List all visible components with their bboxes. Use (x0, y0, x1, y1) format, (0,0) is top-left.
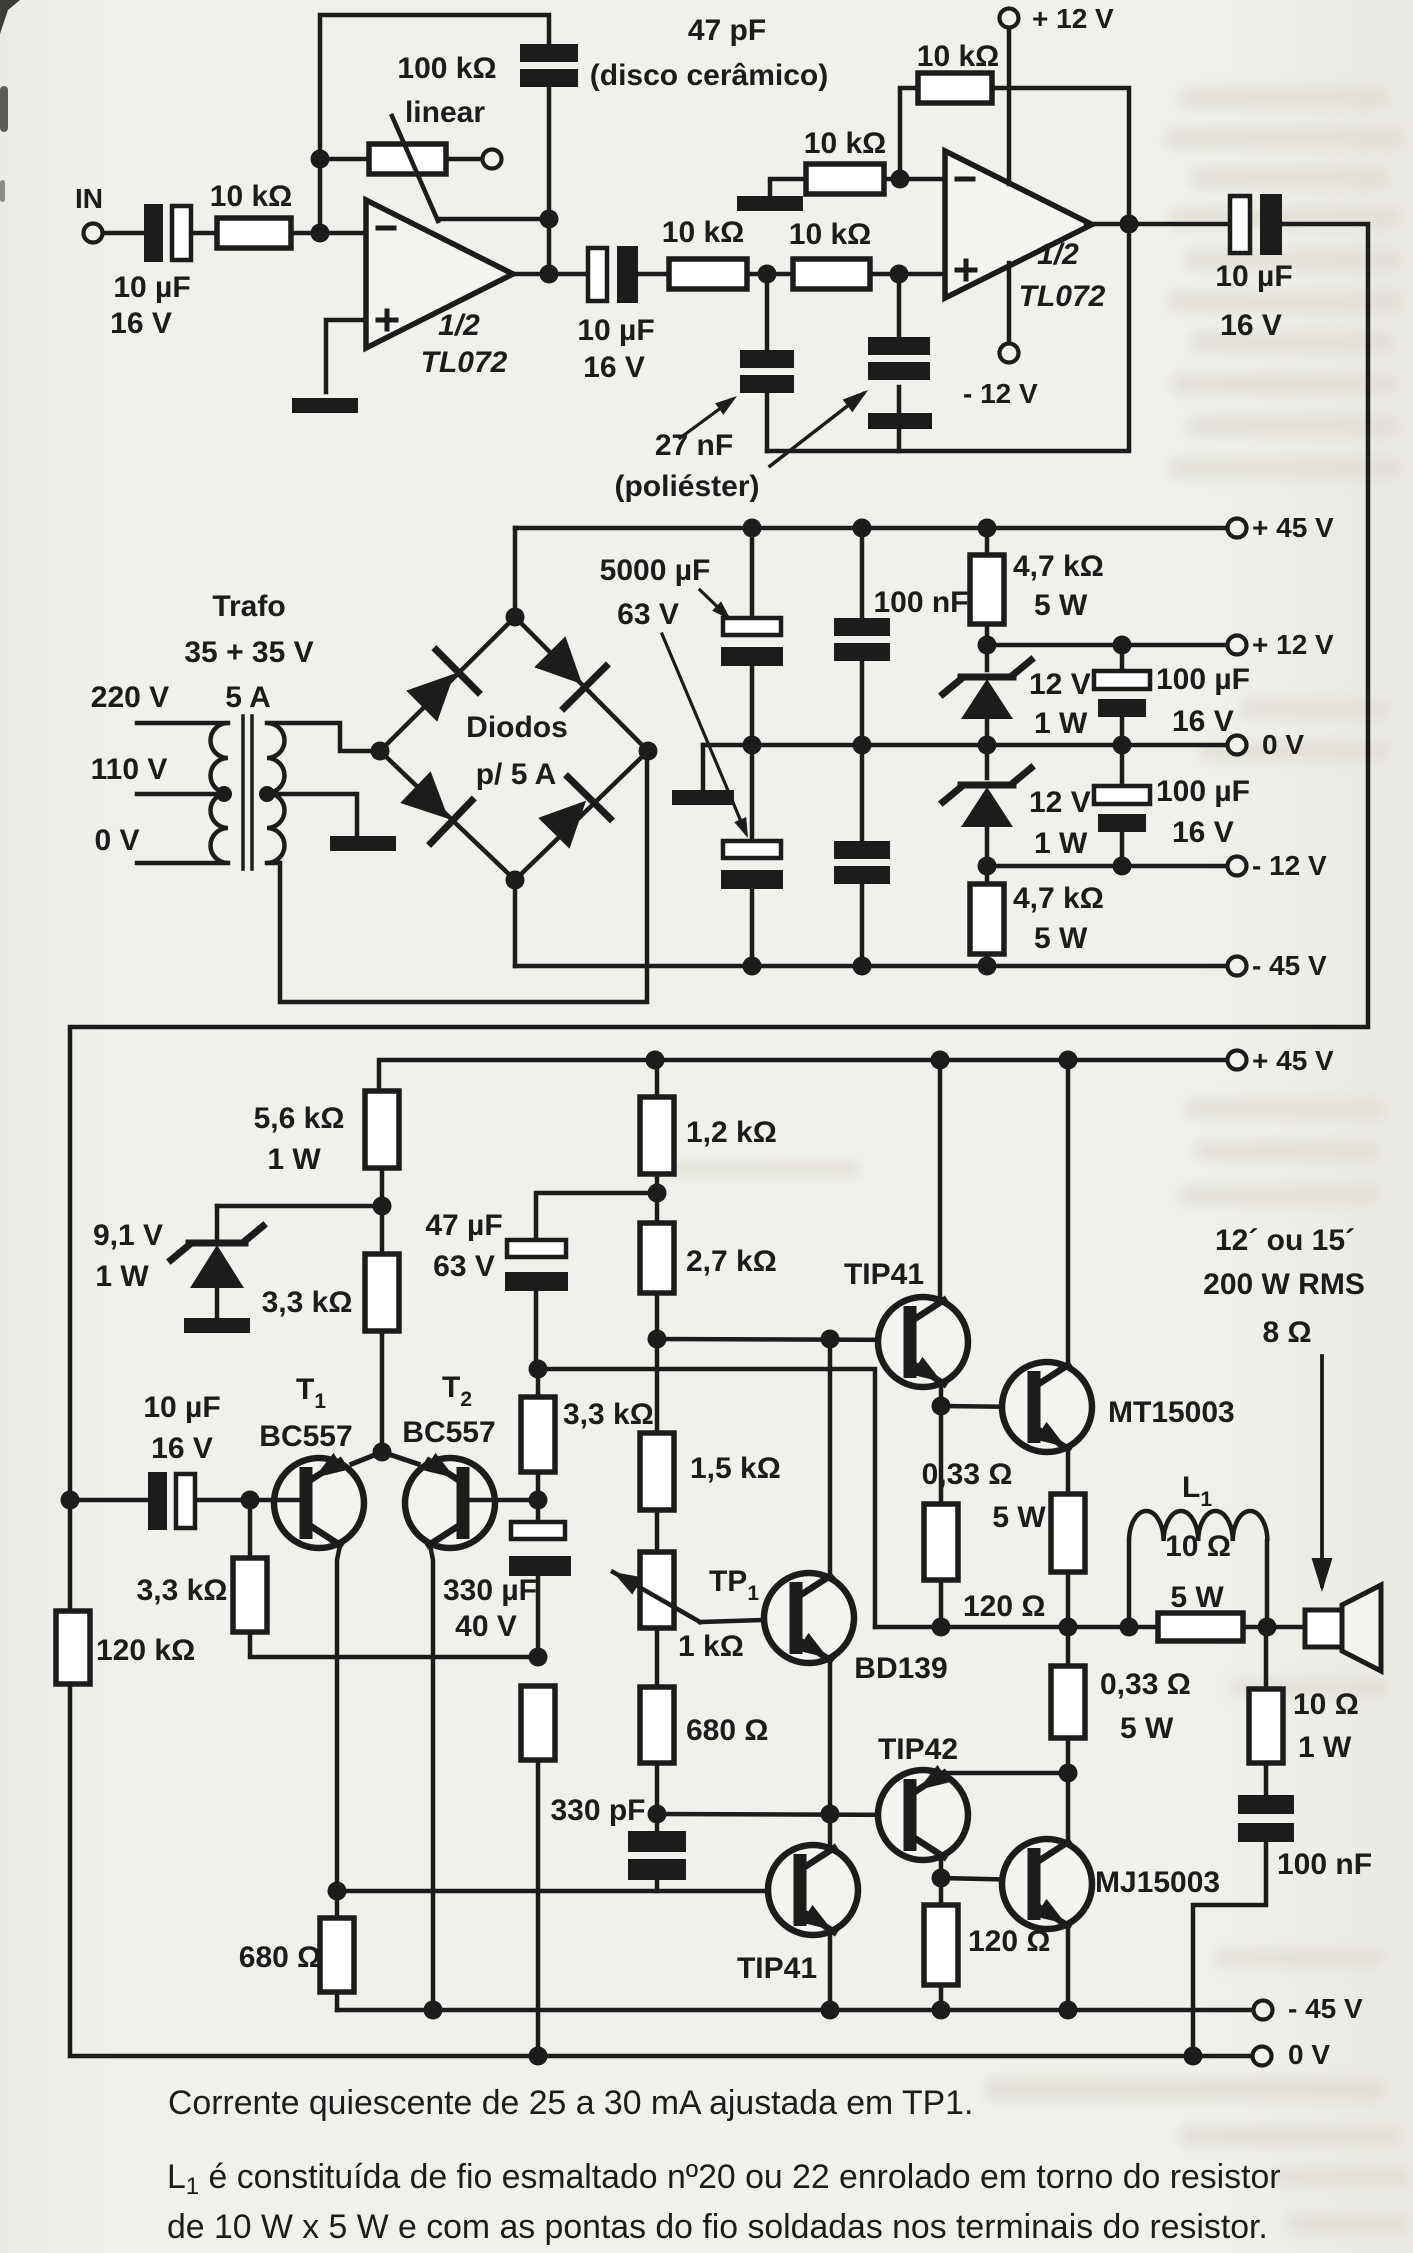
input coupling capacitor C13 10uF 16V (61, 1491, 80, 1510)
wire node A up to feedback top (320, 15, 549, 233)
wire TP1 to R17 (655, 1628, 660, 1687)
capacitor C16 330 pF (655, 1814, 660, 1831)
node output U1a junction (540, 265, 559, 284)
svg-text:16 V: 16 V (583, 351, 645, 384)
bridge rectifier B1 diamond (380, 617, 648, 880)
wire lower bias to TIP41 b2 base (337, 1889, 796, 1894)
resistor R9 3.3 kOhm (365, 1254, 399, 1331)
ground symbol at Z3 (184, 1318, 250, 1333)
node M bias chain junction (648, 1184, 667, 1203)
wire R11 down to 0V rail (70, 1684, 1253, 2056)
svg-text:680 Ω: 680 Ω (686, 1714, 768, 1747)
svg-text:1/2: 1/2 (438, 309, 480, 342)
+12V supply terminal U1b (1000, 9, 1019, 28)
svg-text:1 W: 1 W (1034, 827, 1088, 860)
T2 emitter wire to node H (382, 1452, 418, 1464)
svg-text:16 V: 16 V (1220, 309, 1282, 342)
zobel capacitor C17 100nF (1264, 1763, 1269, 1795)
svg-text:47 µF: 47 µF (425, 1209, 502, 1242)
svg-text:BC557: BC557 (259, 1420, 352, 1453)
svg-text:16 V: 16 V (1172, 705, 1234, 738)
svg-text:100 nF: 100 nF (873, 586, 968, 619)
terminal 0V amp (1253, 2047, 1272, 2066)
resistor R24 120 Ohm lower (939, 1878, 944, 1905)
MT15003 emitter wire (1060, 1445, 1068, 1494)
wire U1b output (1086, 222, 1230, 227)
svg-text:16 V: 16 V (110, 307, 172, 340)
capacitor C8 5000uF 63V lower (743, 736, 762, 755)
resistor R14 1.2 kOhm bias chain (646, 1051, 665, 1070)
node I amp input junction (241, 1491, 260, 1510)
wire filter bottom rail to output (767, 224, 1129, 451)
svg-text:1,5 kΩ: 1,5 kΩ (690, 1452, 781, 1485)
wire bridge top to +45 rail (513, 528, 518, 617)
svg-text:10 Ω: 10 Ω (1165, 1530, 1231, 1563)
svg-text:1 kΩ: 1 kΩ (678, 1630, 744, 1663)
transistor Q2 TIP41 upper driver (878, 1297, 968, 1387)
-12V supply terminal U1b (1007, 263, 1012, 344)
wire R5 left end to ground (770, 179, 806, 196)
wire R4 to output node (992, 88, 1129, 224)
svg-text:4,7 kΩ: 4,7 kΩ (1013, 882, 1104, 915)
svg-text:1 W: 1 W (267, 1143, 321, 1176)
wire secondary top to bridge left corner (267, 723, 380, 751)
svg-text:120 kΩ: 120 kΩ (96, 1634, 195, 1667)
bootstrap wire node L to output (538, 1369, 875, 1627)
resistor R15 2.7 kOhm bias chain (640, 1223, 674, 1293)
zobel resistor R22 10 Ohm 1W (1264, 1627, 1269, 1689)
-45V rail power supply (515, 964, 1227, 969)
svg-text:BC557: BC557 (402, 1416, 495, 1449)
trimpot TP1 1 kOhm (640, 1552, 674, 1628)
ground symbol on 0V rail (701, 745, 706, 790)
BD139 emitter wire down to node Q (830, 1656, 835, 1814)
svg-text:10 µF: 10 µF (577, 314, 654, 347)
svg-text:27 nF: 27 nF (655, 429, 733, 462)
wire node X to MJ15003 collector (1066, 1773, 1071, 1840)
svg-text:3,3 kΩ: 3,3 kΩ (563, 1398, 654, 1431)
-12V rail wire (987, 864, 1227, 869)
MJ15003 emitter wire to -45 rail (1060, 1922, 1068, 2010)
svg-text:12´ ou 15´: 12´ ou 15´ (1215, 1224, 1355, 1257)
svg-text:10 kΩ: 10 kΩ (662, 216, 744, 249)
node O bias chain to BD139 collector (821, 1330, 840, 1349)
svg-text:330 µF: 330 µF (443, 1574, 537, 1607)
wire C2 to node B (547, 89, 552, 219)
svg-text:100 µF: 100 µF (1156, 775, 1250, 808)
node S MT15003 base junction (932, 1397, 951, 1416)
svg-text:12 V: 12 V (1029, 668, 1091, 701)
svg-text:TL072: TL072 (1019, 280, 1106, 313)
wire C1 to R1 (191, 231, 217, 236)
node L bias bootstrap junction (529, 1360, 548, 1379)
svg-text:5,6 kΩ: 5,6 kΩ (254, 1102, 345, 1135)
T1 collector wire down (337, 1545, 340, 1891)
resistor R13 feedback to 0V (521, 1686, 555, 1760)
BD139 collector wire up to node O (830, 1339, 835, 1580)
resistor R19 120 Ohm (939, 1406, 944, 1504)
node Y MJ15003 base junction (932, 1869, 951, 1888)
node C filter junction 1 (758, 265, 777, 284)
capacitor C6 10uF 16V output coupling (1230, 196, 1250, 253)
wire non-inverting input to ground (326, 320, 366, 392)
svg-text:5 W: 5 W (1170, 1581, 1224, 1614)
capacitor C12 100uF 16V lower (1120, 745, 1125, 786)
capacitor C11 100uF 16V upper (1113, 636, 1132, 655)
svg-text:10 µF: 10 µF (1215, 260, 1292, 293)
resistor R10 3.3 kOhm input bias (248, 1500, 253, 1558)
resistor R3 10 kOhm filter (793, 259, 870, 289)
resistor R18 680 Ohm T1 collector load (335, 1891, 340, 1918)
zobel wire to 0V rail (1193, 1842, 1266, 2056)
svg-text:0 V: 0 V (1288, 2039, 1330, 2070)
wire U1b inverting input (900, 177, 945, 182)
wire bridge bottom to -45 rail (513, 880, 518, 966)
node A junction at inverting input (311, 224, 330, 243)
svg-text:16 V: 16 V (151, 1432, 213, 1465)
svg-text:MT15003: MT15003 (1108, 1396, 1235, 1429)
terminal +12V supply (1228, 636, 1247, 655)
wire R3 to opamp U1b (870, 272, 945, 277)
wire R10 to feedback node (250, 1632, 538, 1657)
resistor R6 4.7 kOhm 5W upper (978, 519, 997, 538)
svg-text:- 45 V: - 45 V (1288, 1993, 1363, 2024)
svg-text:5 W: 5 W (1120, 1712, 1174, 1745)
secondary center tap to ground (259, 786, 275, 802)
zener diode Z3 9.1V 1W (215, 1206, 220, 1240)
zener diode Z1 12V 1W upper (985, 645, 990, 670)
node R 680 ohm junction (328, 1882, 347, 1901)
node T output junction 120ohm (932, 1618, 951, 1637)
svg-text:10 Ω: 10 Ω (1293, 1688, 1359, 1721)
svg-text:1 W: 1 W (1298, 1731, 1352, 1764)
svg-text:40 V: 40 V (455, 1610, 517, 1643)
0V rail power supply (703, 743, 1227, 748)
svg-text:0,33 Ω: 0,33 Ω (922, 1458, 1013, 1491)
wire node B down to output node (547, 219, 552, 274)
terminal 0V supply (1228, 736, 1247, 755)
svg-text:IN: IN (75, 183, 103, 214)
node E inverting input U1b (891, 170, 910, 189)
resistor R7 4.7 kOhm 5W lower (985, 866, 990, 884)
node D filter junction 2 (890, 265, 909, 284)
TIP42 emitter wire to 0.33 lower (936, 1773, 1068, 1777)
svg-text:(poliéster): (poliéster) (614, 470, 759, 503)
svg-text:+ 12 V: + 12 V (1252, 629, 1334, 660)
svg-text:TIP42: TIP42 (878, 1733, 958, 1766)
wire R17 to node P (655, 1763, 660, 1814)
wire preamp output routing to power amp input (70, 224, 1368, 1500)
svg-text:+ 12 V: + 12 V (1032, 3, 1114, 34)
svg-text:9,1 V: 9,1 V (93, 1219, 163, 1252)
svg-text:8 Ω: 8 Ω (1262, 1316, 1311, 1349)
resistor R17 680 Ohm bias chain (640, 1687, 674, 1763)
MT15003 collector to +45 rail (1059, 1051, 1078, 1070)
capacitor C2 47 pF feedback (520, 44, 578, 62)
resistor R5 10 kOhm to ground (806, 164, 884, 194)
svg-text:100 nF: 100 nF (1277, 1848, 1372, 1881)
TIP41 emitter wire (936, 1380, 941, 1406)
svg-text:TIP41: TIP41 (737, 1952, 817, 1985)
T1 emitter wire to node H (352, 1452, 382, 1464)
svg-text:TL072: TL072 (421, 346, 508, 379)
wire IN to C1 (103, 231, 144, 236)
svg-text:12 V: 12 V (1029, 786, 1091, 819)
wire C3 to R2 (638, 272, 669, 277)
svg-text:3,3 kΩ: 3,3 kΩ (137, 1574, 228, 1607)
TIP41 b2 emitter wire to -45 rail (826, 1928, 830, 2010)
svg-text:0 V: 0 V (1262, 729, 1304, 760)
wire R5 to node E (884, 177, 900, 182)
svg-text:1 W: 1 W (1034, 707, 1088, 740)
svg-text:L1 é constituída de fio esmalt: L1 é constituída de fio esmaltado nº20 o… (167, 2158, 1281, 2200)
node -45 junctions (424, 2001, 443, 2020)
capacitor C10 100nF lower (853, 736, 872, 755)
svg-text:10 µF: 10 µF (113, 271, 190, 304)
svg-text:Corrente quiescente de 25 a 30: Corrente quiescente de 25 a 30 mA ajusta… (168, 2084, 973, 2122)
capacitor C5 27nF at + input (897, 274, 902, 337)
svg-text:0,33 Ω: 0,33 Ω (1100, 1668, 1191, 1701)
capacitor C9 100nF upper (853, 519, 872, 538)
trimpot wiper wire to BD139 base (700, 1619, 792, 1622)
zener diode Z2 12V 1W lower (985, 745, 990, 778)
svg-text:TIP41: TIP41 (844, 1258, 924, 1291)
node F output U1b junction (1120, 215, 1139, 234)
op-amp U1b 1/2 TL072 (945, 151, 1092, 298)
TIP41 b2 collector wire to node Q (826, 1814, 830, 1852)
capacitor C3 10uF 16V coupling (588, 248, 607, 301)
svg-text:+ 45 V: + 45 V (1252, 512, 1334, 543)
svg-text:63 V: 63 V (617, 598, 679, 631)
svg-text:220 V: 220 V (91, 681, 169, 714)
svg-text:16 V: 16 V (1172, 816, 1234, 849)
svg-text:35 + 35 V: 35 + 35 V (184, 636, 313, 669)
svg-text:- 12 V: - 12 V (1252, 850, 1327, 881)
svg-text:680 Ω: 680 Ω (239, 1941, 321, 1974)
resistor R23 0.33 Ohm 5W lower (1051, 1666, 1085, 1738)
svg-text:10 kΩ: 10 kΩ (210, 180, 292, 213)
node X TIP42 emitter junction (1059, 1764, 1078, 1783)
node K feedback ground junction (529, 1648, 548, 1667)
svg-text:10 µF: 10 µF (143, 1391, 220, 1424)
diode D1 bridge top-left (406, 674, 454, 722)
node J T2 base junction (529, 1491, 548, 1510)
transformer TR1 core (241, 716, 245, 869)
-45V rail power amp (337, 2008, 1253, 2013)
svg-text:5 W: 5 W (992, 1501, 1046, 1534)
resistor R11 120 kOhm input (68, 1500, 73, 1611)
ground symbol at center tap (330, 836, 396, 851)
svg-text:1,2 kΩ: 1,2 kΩ (686, 1116, 777, 1149)
resistor R2 10 kOhm filter (669, 259, 747, 289)
node P lower driver junction (648, 1805, 667, 1824)
svg-text:5 A: 5 A (225, 681, 271, 714)
node Q BD139 emitter junction (821, 1805, 840, 1824)
transistor Q4 TIP42 lower driver (878, 1770, 968, 1860)
svg-text:linear: linear (405, 96, 485, 129)
svg-text:(disco cerâmico): (disco cerâmico) (590, 59, 828, 92)
potentiometer P1 100 kOhm linear (311, 150, 330, 169)
transistor Q6 TIP41 lower driver 2 (768, 1845, 858, 1935)
svg-text:de 10 W x 5 W e com as pontas: de 10 W x 5 W e com as pontas do fio sol… (167, 2208, 1268, 2246)
diode D2 bridge top-right (534, 636, 582, 684)
inductor L1 over resistor (1127, 1541, 1132, 1627)
wire secondary bottom to bridge right corner (267, 751, 647, 1002)
terminal -12V supply (1228, 857, 1247, 876)
svg-text:200 W RMS: 200 W RMS (1203, 1268, 1365, 1301)
transistor T1 BC557 (274, 1458, 364, 1548)
svg-text:- 45 V: - 45 V (1252, 950, 1327, 981)
svg-text:1 W: 1 W (95, 1260, 149, 1293)
svg-text:3,3 kΩ: 3,3 kΩ (262, 1286, 353, 1319)
T2 base wire (468, 1498, 537, 1503)
T2 collector wire down (430, 1545, 433, 2010)
ground symbol at R5 (737, 196, 803, 211)
capacitor C4 27nF to bottom rail (765, 274, 770, 350)
svg-text:Trafo: Trafo (212, 590, 285, 623)
node G zener bias junction (373, 1197, 392, 1216)
svg-text:MJ15003: MJ15003 (1095, 1866, 1220, 1899)
wire R1 to opamp inverting input (291, 231, 366, 236)
svg-text:120 Ω: 120 Ω (963, 1590, 1045, 1623)
resistor R12 3.3 kOhm feedback (521, 1397, 555, 1472)
svg-text:63 V: 63 V (433, 1250, 495, 1283)
diode D4 bridge bottom-right (538, 801, 586, 849)
wire node G to zener Z3 (217, 1204, 382, 1209)
svg-text:2,7 kΩ: 2,7 kΩ (686, 1245, 777, 1278)
resistor R8 5.6 kOhm 1W (365, 1091, 399, 1168)
svg-text:5 W: 5 W (1034, 589, 1088, 622)
svg-text:4,7 kΩ: 4,7 kΩ (1013, 550, 1104, 583)
svg-text:5 W: 5 W (1034, 922, 1088, 955)
transistor Q5 MJ15003 lower output (1002, 1839, 1092, 1929)
wire node N to TIP41 driver base (657, 1339, 909, 1340)
capacitor C7 5000uF 63V upper (743, 519, 762, 538)
resistor R16 1.5 kOhm bias chain (640, 1433, 674, 1510)
+45V rail power amp (379, 1060, 1227, 1091)
wire node P to TIP42 base (657, 1814, 909, 1815)
node H emitter junction (373, 1443, 392, 1462)
terminal +45V supply (1228, 519, 1247, 538)
svg-text:BD139: BD139 (854, 1652, 947, 1685)
resistor R1 10 kOhm (217, 218, 291, 248)
svg-text:- 12 V: - 12 V (963, 378, 1038, 409)
output rail wire (875, 1625, 1158, 1630)
wire U1a output (513, 272, 588, 277)
node V output junction L1 left (1120, 1618, 1139, 1637)
wire node E up to feedback resistor (900, 88, 918, 179)
svg-text:110 V: 110 V (91, 753, 168, 786)
resistor R21 10 Ohm 5W output (1158, 1613, 1243, 1641)
speaker LS1 (1305, 1610, 1342, 1647)
wire node I to T1 base (250, 1498, 301, 1503)
svg-text:5000 µF: 5000 µF (600, 554, 711, 587)
terminal +45V amp (1228, 1051, 1247, 1070)
wire R9 to differential pair emitters (380, 1331, 385, 1452)
svg-text:10 kΩ: 10 kΩ (917, 40, 999, 73)
svg-text:0 V: 0 V (94, 824, 139, 857)
node 0V zener junction (978, 736, 997, 755)
wire node Y to MJ15003 base (941, 1878, 1030, 1880)
svg-text:100 µF: 100 µF (1156, 663, 1250, 696)
svg-text:Diodos: Diodos (466, 711, 568, 744)
wire node S to MT15003 base (941, 1406, 1030, 1407)
transistor Q1 BD139 bias servo (764, 1573, 854, 1663)
+12V rail wire (987, 643, 1227, 648)
capacitor C14 330uF 40V feedback (536, 1500, 541, 1522)
svg-text:10 kΩ: 10 kΩ (789, 218, 871, 251)
transformer TR1 secondary winding (267, 723, 285, 863)
transformer TR1 primary winding (137, 721, 228, 726)
input terminal IN (84, 224, 103, 243)
op-amp U1a 1/2 TL072 (366, 200, 513, 348)
transistor T2 BC557 (405, 1458, 495, 1548)
ground symbol at U1a non-inverting input (292, 398, 358, 413)
terminal -45V amp (1254, 2001, 1273, 2020)
svg-text:+ 45 V: + 45 V (1252, 1045, 1334, 1076)
transistor Q3 MT15003 upper output (1002, 1362, 1092, 1452)
wire R2 to R3 (747, 272, 793, 277)
TIP41 collector to +45 rail (931, 1051, 950, 1070)
svg-text:100 kΩ: 100 kΩ (397, 52, 496, 85)
svg-text:10 kΩ: 10 kΩ (804, 127, 886, 160)
resistor R20 0.33 Ohm 5W upper (1051, 1494, 1085, 1572)
node U output junction emitter (1059, 1618, 1078, 1637)
resistor R4 10 kOhm feedback U1b (918, 73, 992, 103)
node B feedback junction (540, 210, 559, 229)
+45V rail power supply (515, 526, 1227, 531)
svg-text:330 pF: 330 pF (550, 1794, 645, 1827)
node W output junction L1 right (1258, 1618, 1277, 1637)
capacitor C1 10uF 16V input coupling (144, 204, 163, 262)
node N driver base junction (648, 1330, 667, 1349)
capacitor C15 47uF 63V bias (536, 1193, 655, 1240)
terminal -45V supply (1228, 957, 1247, 976)
svg-text:1/2: 1/2 (1037, 238, 1079, 271)
svg-text:p/ 5 A: p/ 5 A (476, 758, 557, 791)
diode D3 bridge bottom-left (400, 771, 448, 819)
TIP42 collector wire (936, 1853, 941, 1878)
svg-text:47 pF: 47 pF (688, 14, 766, 47)
